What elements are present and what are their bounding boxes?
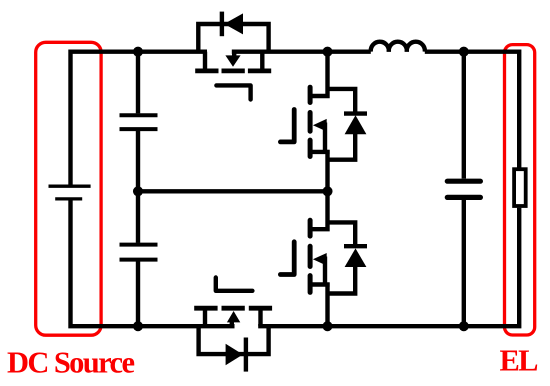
wire middle leg center — [325, 150, 329, 191]
inductor L1 — [371, 42, 425, 52]
node H bottom rail / C3 — [461, 323, 467, 329]
diode D3 antiparallel of Q3 — [328, 222, 368, 293]
wire top rail right — [425, 52, 519, 168]
transistor Q2 upper middle MOSFET — [280, 52, 329, 157]
node F bottom rail / leg — [325, 323, 331, 329]
battery V1 DC source — [49, 186, 91, 199]
svg-text:EL: EL — [500, 344, 539, 378]
wire bottom rail left with battery bottom lead — [71, 199, 235, 326]
node G top rail / C3 — [461, 49, 467, 55]
wire top rail left with battery top lead — [71, 52, 208, 185]
transistor Q3 lower middle MOSFET — [280, 220, 329, 292]
diode D1 antiparallel of Q1 — [198, 12, 268, 52]
node A top rail / C1 — [135, 49, 141, 55]
diode D2 antiparallel of Q2 — [328, 89, 368, 160]
capacitor C2 — [120, 191, 158, 326]
wire mid rail — [138, 189, 328, 193]
wire middle leg to Q3 drain — [310, 191, 328, 229]
node D mid rail right — [325, 188, 331, 194]
wire top rail middle — [232, 50, 371, 54]
node E top rail / leg — [325, 49, 331, 55]
wire middle leg bottom — [325, 283, 329, 327]
diode D4 antiparallel of Q4 — [199, 326, 269, 371]
resistor EL load — [514, 169, 526, 206]
wire bottom rail right — [258, 208, 519, 326]
transistor Q4 bottom MOSFET — [197, 278, 270, 327]
svg-text:DC Source: DC Source — [7, 345, 135, 379]
capacitor C3 output — [447, 52, 480, 327]
node C bottom rail / C2 — [135, 323, 141, 329]
capacitor C1 — [120, 52, 158, 192]
red box DC Source — [36, 42, 101, 335]
node B mid rail left — [135, 188, 141, 194]
transistor Q1 top MOSFET — [198, 52, 269, 100]
red box EL — [505, 45, 535, 335]
